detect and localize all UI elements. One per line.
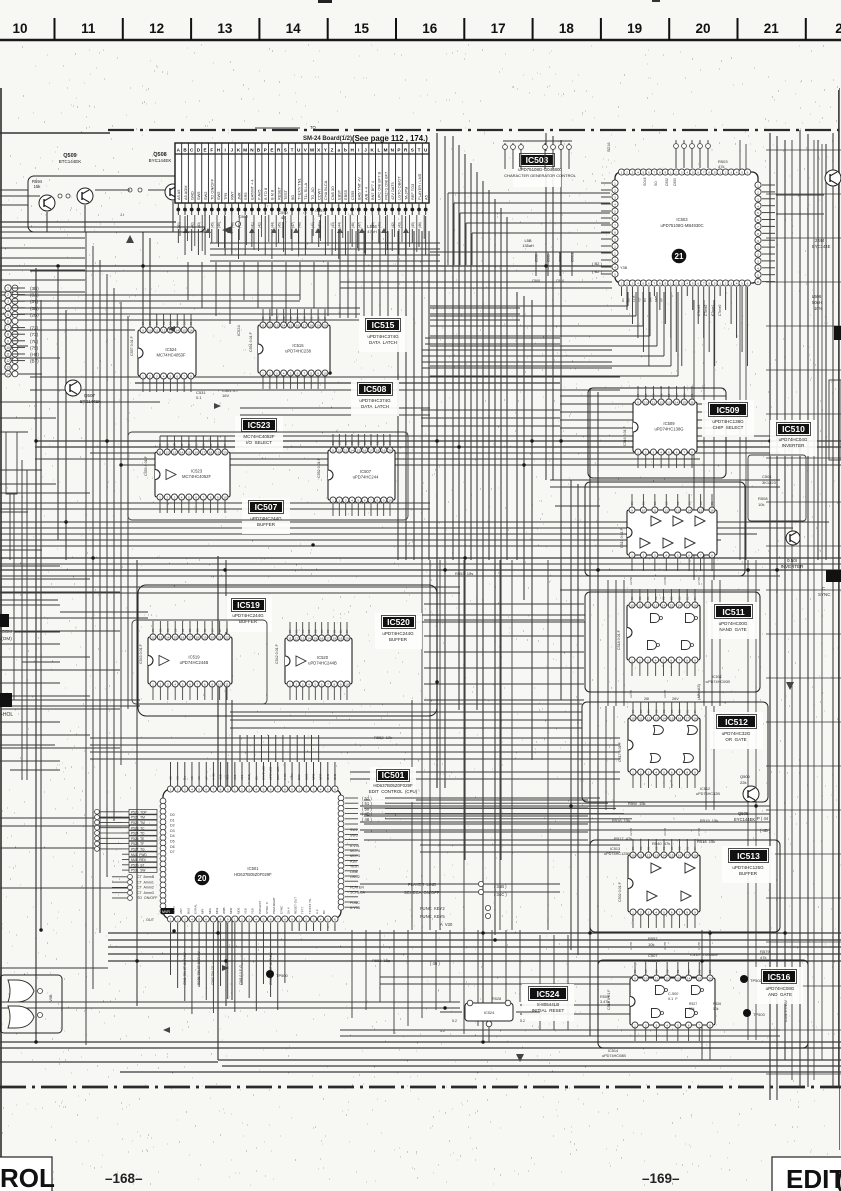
- svg-text:8: 8: [333, 683, 335, 687]
- svg-text:IC512: IC512: [700, 787, 710, 791]
- svg-text:A V3B: A V3B: [350, 906, 361, 910]
- svg-text:16: 16: [678, 717, 682, 721]
- svg-text:1: 1: [632, 911, 634, 915]
- svg-text:HD637B05Z0F029F: HD637B05Z0F029F: [373, 783, 413, 788]
- svg-text:6: 6: [189, 683, 191, 687]
- svg-text:11: 11: [652, 401, 655, 405]
- svg-text:7: 7: [303, 372, 305, 376]
- svg-text:14: 14: [176, 329, 180, 333]
- svg-text:B6: B6: [647, 709, 651, 713]
- svg-text:A12: A12: [233, 774, 237, 780]
- svg-text:2444: 2444: [815, 238, 825, 243]
- svg-text:MOY5: MOY5: [350, 854, 360, 858]
- svg-text:B9: B9: [654, 846, 658, 850]
- svg-text:PGM MGMT: PGM MGMT: [272, 897, 276, 914]
- svg-text:4: 4: [655, 659, 657, 663]
- svg-text:13: 13: [173, 451, 177, 455]
- svg-text:PLAYER: PLAYER: [350, 885, 364, 889]
- svg-text:3: 3: [174, 496, 176, 500]
- svg-text:6: 6: [7, 320, 9, 324]
- svg-text:MC74HC4052F: MC74HC4052F: [182, 474, 212, 479]
- svg-text:1: 1: [142, 375, 144, 379]
- svg-text:1: 1: [234, 788, 236, 792]
- svg-text:3: 3: [302, 683, 304, 687]
- svg-text:0.50I: 0.50I: [787, 558, 797, 563]
- svg-text:17: 17: [686, 854, 690, 858]
- svg-text:8: 8: [708, 282, 710, 286]
- svg-text:20: 20: [223, 451, 227, 455]
- svg-text:1: 1: [262, 372, 264, 376]
- svg-text:MAIN: MAIN: [172, 907, 176, 915]
- svg-text:B4: B4: [316, 316, 320, 320]
- svg-text:B6: B6: [646, 596, 650, 600]
- svg-text:1: 1: [631, 554, 633, 558]
- svg-text:B1: B1: [685, 596, 689, 600]
- svg-text:16: 16: [708, 977, 712, 981]
- svg-text:P ( 44 ): P ( 44 ): [757, 816, 771, 821]
- svg-text:1: 1: [170, 788, 172, 792]
- svg-text:A2: A2: [169, 776, 173, 780]
- svg-text:MUL FWD: MUL FWD: [131, 853, 147, 857]
- svg-text:6: 6: [688, 554, 690, 558]
- svg-text:13: 13: [667, 401, 671, 405]
- svg-text:16: 16: [320, 637, 324, 641]
- svg-text:0.1: 0.1: [196, 395, 202, 400]
- svg-text:B4: B4: [693, 709, 697, 713]
- svg-text:IC513: IC513: [610, 847, 620, 851]
- svg-text:R504: R504: [600, 995, 609, 999]
- svg-text:11: 11: [653, 509, 656, 513]
- svg-text:8: 8: [310, 372, 312, 376]
- svg-text:SYNC: SYNC: [818, 592, 831, 597]
- svg-text:8: 8: [686, 659, 688, 663]
- svg-text:uPD74HC32B: uPD74HC32B: [696, 792, 720, 796]
- svg-text:B9: B9: [350, 441, 354, 445]
- svg-text:13: 13: [6, 366, 10, 370]
- svg-text:4: 4: [320, 918, 322, 922]
- svg-text:6: 6: [671, 911, 673, 915]
- svg-text:(43): (43): [331, 222, 335, 228]
- svg-text:15: 15: [698, 977, 702, 981]
- svg-text:B2: B2: [181, 628, 185, 632]
- svg-text:9G: 9G: [290, 195, 295, 200]
- svg-text:V1B: V1B: [244, 908, 248, 914]
- svg-text:B2: B2: [676, 501, 680, 505]
- svg-text:B6: B6: [275, 316, 279, 320]
- svg-text:R557: R557: [648, 936, 658, 941]
- svg-text:A1B: A1B: [350, 859, 357, 863]
- svg-text:CTone0: CTone0: [718, 304, 722, 316]
- svg-text:(3A): (3A): [30, 293, 39, 298]
- svg-text:uPD74HC00G: uPD74HC00G: [719, 621, 748, 626]
- svg-text:3: 3: [156, 375, 158, 379]
- svg-text:B0: B0: [288, 629, 292, 633]
- svg-text:18: 18: [209, 451, 213, 455]
- svg-text:SW3: SW3: [350, 833, 358, 837]
- svg-text:1: 1: [632, 771, 634, 775]
- svg-text:4: 4: [736, 171, 738, 175]
- svg-text:7: 7: [277, 788, 279, 792]
- svg-text:9: 9: [757, 239, 759, 243]
- svg-text:5: 5: [290, 372, 292, 376]
- svg-text:3K1823: 3K1823: [762, 480, 777, 485]
- svg-text:MR3: MR3: [312, 773, 316, 780]
- svg-text:R518 15k: R518 15k: [697, 839, 715, 844]
- svg-text:+HOL: +HOL: [0, 712, 13, 718]
- svg-text:7: 7: [700, 554, 702, 558]
- svg-text:5: 5: [357, 499, 359, 503]
- svg-text:1: 1: [757, 246, 759, 250]
- svg-text:10: 10: [630, 604, 634, 608]
- svg-text:GN5: GN5: [326, 774, 330, 781]
- svg-text:C557 0.01 F: C557 0.01 F: [130, 335, 134, 356]
- svg-text:UPC ON/ BF7 B: UPC ON/ BF7 B: [377, 171, 382, 200]
- svg-text:(40): (40): [177, 222, 181, 228]
- svg-text:4: 4: [308, 683, 310, 687]
- svg-text:B1: B1: [209, 443, 213, 447]
- svg-text:SYNC. C: SYNC. C: [265, 901, 269, 914]
- svg-text:10: 10: [323, 372, 327, 376]
- svg-text:BUFFER: BUFFER: [389, 637, 408, 642]
- svg-text:4: 4: [637, 171, 639, 175]
- svg-text:SW1: SW1: [304, 773, 308, 780]
- svg-text:1: 1: [614, 245, 616, 249]
- svg-text:B2: B2: [676, 969, 680, 973]
- svg-text:26V: 26V: [672, 697, 679, 701]
- svg-text:2: 2: [149, 375, 151, 379]
- svg-text:CN5 3O: CN5 3O: [330, 186, 335, 200]
- svg-text:D6: D6: [170, 845, 175, 849]
- svg-text:12: 12: [151, 636, 155, 640]
- svg-text:18: 18: [333, 637, 337, 641]
- svg-text:4: 4: [163, 375, 165, 379]
- svg-text:B2: B2: [357, 441, 361, 445]
- svg-text:12: 12: [338, 449, 342, 453]
- svg-text:12: 12: [6, 359, 10, 363]
- svg-text:18: 18: [693, 854, 697, 858]
- svg-text:17: 17: [326, 637, 330, 641]
- svg-text:–169–: –169–: [642, 1171, 680, 1186]
- svg-text:J.I: J.I: [120, 212, 124, 217]
- svg-text:5: 5: [7, 313, 9, 317]
- svg-text:4: 4: [757, 266, 759, 270]
- svg-text:BUFFER: BUFFER: [257, 522, 276, 527]
- svg-text:16: 16: [363, 449, 367, 453]
- svg-text:A5: A5: [423, 195, 428, 200]
- svg-text:B%: B%: [648, 297, 652, 302]
- svg-text:B5: B5: [687, 969, 691, 973]
- svg-text:EYC144EK: EYC144EK: [734, 817, 755, 822]
- svg-text:11: 11: [81, 21, 96, 36]
- svg-text:B2: B2: [187, 443, 191, 447]
- svg-text:11: 11: [639, 717, 642, 721]
- svg-text:C513 0.01 F: C513 0.01 F: [620, 527, 624, 548]
- svg-text:9: 9: [227, 918, 229, 922]
- svg-text:R5W 15k: R5W 15k: [628, 801, 646, 806]
- svg-text:MPI: MPI: [201, 909, 205, 915]
- svg-text:D7: D7: [170, 850, 175, 854]
- svg-text:B0: B0: [151, 628, 155, 632]
- svg-text:LINE LED: LINE LED: [269, 766, 273, 780]
- svg-text:A0.B5: A0.B5: [663, 689, 667, 698]
- svg-text:12: 12: [647, 854, 651, 858]
- svg-text:IC514: IC514: [608, 1049, 618, 1053]
- svg-text:2: 2: [640, 771, 642, 775]
- svg-text:A7.B8: A7.B8: [697, 827, 701, 836]
- svg-text:D2: D2: [170, 824, 175, 828]
- svg-text:uPD74HC08G: uPD74HC08G: [766, 986, 795, 991]
- svg-text:R553 10k: R553 10k: [374, 735, 392, 740]
- svg-text:26I: 26I: [644, 697, 649, 701]
- svg-text:9: 9: [694, 771, 696, 775]
- svg-text:SR5: SR5: [243, 192, 248, 200]
- svg-text:A11: A11: [226, 775, 230, 780]
- svg-text:J: J: [364, 148, 367, 153]
- svg-text:17: 17: [188, 636, 192, 640]
- svg-text:9: 9: [317, 372, 319, 376]
- svg-text:5: 5: [198, 918, 200, 922]
- svg-text:5: 5: [677, 554, 679, 558]
- svg-text:5: 5: [182, 683, 184, 687]
- svg-text:B6: B6: [647, 846, 651, 850]
- svg-text:C555: C555: [350, 191, 355, 200]
- svg-text:EAT/MT + 4: EAT/MT + 4: [250, 179, 255, 200]
- svg-text:8: 8: [220, 788, 222, 792]
- svg-text:C560 75V CF: C560 75V CF: [211, 966, 215, 985]
- svg-text:20: 20: [388, 449, 392, 453]
- svg-text:FUNC: FUNC: [350, 901, 360, 905]
- svg-text:3: 3: [167, 683, 169, 687]
- svg-text:15k: 15k: [34, 184, 42, 189]
- svg-text:17: 17: [491, 21, 506, 36]
- svg-text:2: 2: [645, 1024, 647, 1028]
- svg-text:B0: B0: [225, 628, 229, 632]
- svg-text:B4: B4: [339, 629, 343, 633]
- svg-text:2: 2: [757, 191, 759, 195]
- svg-text:1: 1: [234, 918, 236, 922]
- svg-text:S: S: [411, 148, 414, 153]
- svg-text:SD16: SD16: [607, 143, 611, 153]
- svg-text:4: 4: [614, 203, 616, 207]
- svg-text:MD2: MD2: [215, 907, 219, 914]
- svg-text:CT Amm1: CT Amm1: [137, 880, 154, 884]
- svg-text:A5 A5: A5 A5: [176, 190, 181, 200]
- svg-text:3: 3: [632, 282, 634, 286]
- svg-text:JNR: JNR: [236, 192, 241, 200]
- svg-text:7: 7: [679, 911, 681, 915]
- svg-text:C902: C902: [665, 178, 669, 186]
- svg-text:IC507: IC507: [360, 469, 372, 474]
- svg-text:F: F: [210, 148, 213, 153]
- svg-text:B0: B0: [261, 316, 265, 320]
- svg-text:CHARACTER GENERATOR CONTROL: CHARACTER GENERATOR CONTROL: [504, 173, 576, 178]
- svg-text:BN7 BF7 4: BN7 BF7 4: [370, 180, 375, 200]
- svg-text:BUS: BUS: [186, 908, 190, 914]
- svg-text:(2B): (2B): [30, 312, 39, 317]
- svg-text:B6: B6: [166, 628, 170, 632]
- svg-text:D0: D0: [626, 298, 630, 302]
- svg-text:B5: B5: [175, 321, 179, 325]
- svg-text:A V31: A V31: [350, 844, 360, 848]
- svg-text:11: 11: [155, 329, 158, 333]
- svg-text:CTone2: CTone2: [704, 304, 708, 316]
- svg-text:3: 3: [730, 171, 732, 175]
- svg-text:2: 2: [614, 252, 616, 256]
- svg-text:6: 6: [176, 375, 178, 379]
- svg-text:uPD74HC374G: uPD74HC374G: [367, 334, 399, 339]
- svg-text:3.2: 3.2: [440, 1029, 445, 1033]
- svg-text:5: 5: [188, 496, 190, 500]
- svg-text:(41): (41): [318, 222, 322, 228]
- svg-text:TP503: TP503: [753, 1012, 766, 1017]
- svg-text:22k: 22k: [740, 780, 746, 785]
- svg-text:(37): (37): [30, 299, 39, 304]
- svg-text:A7: A7: [204, 776, 208, 780]
- svg-text:5: 5: [663, 911, 665, 915]
- svg-text:2: 2: [241, 788, 243, 792]
- svg-text:1: 1: [298, 918, 300, 922]
- svg-text:5: 5: [668, 451, 670, 455]
- svg-text:2: 2: [160, 683, 162, 687]
- svg-text:B3: B3: [268, 316, 272, 320]
- svg-text:I: I: [358, 148, 359, 153]
- svg-text:13: 13: [655, 717, 659, 721]
- svg-text:13: 13: [301, 637, 305, 641]
- svg-text:B8: B8: [202, 443, 206, 447]
- svg-text:1: 1: [631, 659, 633, 663]
- svg-text:MD5: MD5: [236, 907, 240, 914]
- svg-text:5: 5: [614, 273, 616, 277]
- svg-text:T=EXT/ TN1: T=EXT/ TN1: [296, 178, 301, 200]
- svg-text:uPD74HC238: uPD74HC238: [285, 349, 312, 354]
- svg-text:Y2: Y2: [637, 298, 641, 302]
- svg-text:17: 17: [369, 449, 373, 453]
- svg-text:B5: B5: [296, 316, 300, 320]
- svg-text:CCW7: CCW7: [317, 189, 322, 200]
- svg-text:R555 15s: R555 15s: [372, 958, 390, 963]
- svg-text:E: E: [204, 148, 207, 153]
- svg-text:5: 5: [663, 771, 665, 775]
- svg-text:8: 8: [284, 788, 286, 792]
- svg-text:5: 5: [643, 282, 645, 286]
- svg-text:B8: B8: [677, 596, 681, 600]
- svg-text:B9: B9: [659, 393, 663, 397]
- svg-text:4: 4: [665, 554, 667, 558]
- svg-text:R527: R527: [689, 1002, 697, 1006]
- svg-text:7: 7: [183, 375, 185, 379]
- svg-text:11: 11: [331, 449, 334, 453]
- svg-text:8: 8: [709, 1024, 711, 1028]
- svg-text:1: 1: [152, 683, 154, 687]
- svg-text:5: 5: [757, 273, 759, 277]
- svg-text:LGTO OB/OT: LGTO OB/OT: [397, 176, 402, 200]
- svg-text:RW7: RW7: [230, 191, 235, 200]
- svg-text:IC524: IC524: [236, 325, 241, 336]
- svg-text:EBST: EBST: [337, 189, 342, 200]
- svg-text:14: 14: [687, 977, 691, 981]
- svg-text:MDL: MDL: [208, 907, 212, 914]
- svg-text:12: 12: [659, 401, 663, 405]
- svg-text:B3: B3: [295, 629, 299, 633]
- svg-text:NAND GATE: NAND GATE: [719, 627, 746, 632]
- svg-text:21: 21: [218, 636, 222, 640]
- svg-text:12: 12: [165, 451, 169, 455]
- svg-text:9: 9: [714, 282, 716, 286]
- svg-text:8: 8: [190, 375, 192, 379]
- svg-text:11: 11: [261, 324, 264, 328]
- svg-text:(75): (75): [30, 345, 39, 350]
- svg-text:uPD74HC125G: uPD74HC125G: [732, 865, 764, 870]
- svg-text:TEST: TEST: [350, 865, 360, 869]
- svg-text:( 34C ): ( 34C ): [494, 892, 507, 897]
- svg-text:B5: B5: [687, 501, 691, 505]
- svg-text:2: 2: [614, 189, 616, 193]
- svg-text:C909: C909: [547, 254, 551, 262]
- svg-text:C9010: C9010: [559, 252, 563, 262]
- svg-text:135uH: 135uH: [522, 244, 533, 248]
- svg-text:A7.B0: A7.B0: [697, 576, 701, 585]
- svg-text:4: 4: [181, 496, 183, 500]
- svg-text:2: 2: [675, 282, 677, 286]
- svg-text:IC519: IC519: [188, 655, 200, 660]
- svg-text:A7.B5: A7.B5: [697, 941, 701, 950]
- svg-text:IC515: IC515: [372, 320, 395, 330]
- svg-text:3: 3: [248, 918, 250, 922]
- svg-text:PLAYER LINE: PLAYER LINE: [408, 882, 436, 887]
- svg-text:B2: B2: [289, 316, 293, 320]
- svg-text:B2: B2: [662, 846, 666, 850]
- svg-text:B6: B6: [653, 501, 657, 505]
- svg-text:( 34B ): ( 34B ): [494, 884, 507, 889]
- svg-text:DATA LATCH: DATA LATCH: [369, 340, 397, 345]
- svg-text:2: 2: [645, 451, 647, 455]
- svg-text:MR7: MR7: [319, 773, 323, 780]
- svg-text:A2.B0: A2.B0: [629, 576, 633, 585]
- svg-text:9: 9: [291, 918, 293, 922]
- svg-text:B3: B3: [638, 596, 642, 600]
- svg-text:( B2 ): ( B2 ): [592, 269, 602, 274]
- svg-text:(49): (49): [237, 222, 241, 228]
- svg-text:B8: B8: [678, 846, 682, 850]
- svg-text:4: 4: [686, 171, 688, 175]
- svg-text:R517 47k: R517 47k: [614, 836, 632, 841]
- svg-text:18: 18: [693, 604, 697, 608]
- svg-text:6: 6: [671, 659, 673, 663]
- svg-text:SW2: SW2: [203, 192, 208, 200]
- svg-text:P527 TG: P527 TG: [131, 848, 145, 852]
- svg-text:16: 16: [296, 324, 300, 328]
- svg-text:18: 18: [309, 324, 313, 328]
- svg-text:16: 16: [678, 604, 682, 608]
- svg-text:P521 TM: P521 TM: [131, 816, 145, 820]
- svg-text:/(OM): /(OM): [0, 636, 12, 641]
- svg-text:BA5/ TNT +V: BA5/ TNT +V: [357, 177, 362, 200]
- svg-text:B7: B7: [223, 443, 227, 447]
- svg-text:7: 7: [703, 282, 705, 286]
- svg-text:MD0: MD0: [229, 907, 233, 914]
- svg-text:C562: C562: [238, 214, 248, 219]
- svg-text:(AB1 A5): (AB1 A5): [696, 683, 701, 700]
- svg-text:Y: Y: [324, 148, 327, 153]
- svg-text:EDIT: EDIT: [786, 1164, 841, 1191]
- svg-text:B6: B6: [652, 393, 656, 397]
- svg-text:B3: B3: [644, 969, 648, 973]
- svg-text:B1: B1: [189, 321, 193, 325]
- svg-text:M: M: [243, 148, 247, 153]
- svg-text:a: a: [337, 148, 340, 153]
- svg-text:2: 2: [626, 282, 628, 286]
- svg-text:B2: B2: [662, 709, 666, 713]
